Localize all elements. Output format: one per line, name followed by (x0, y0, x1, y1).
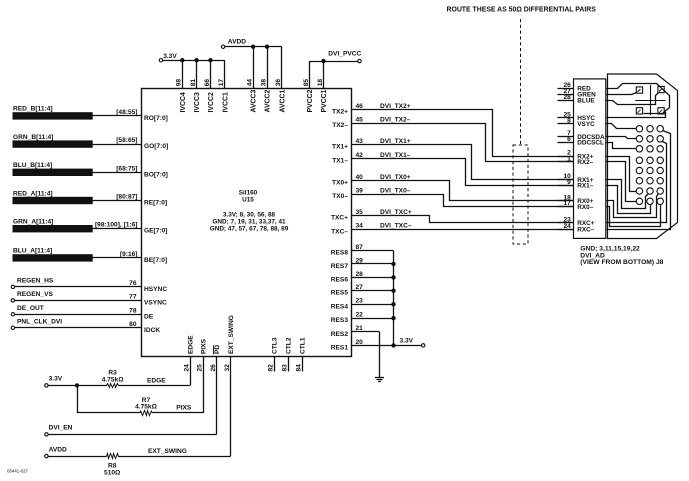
svg-text:34: 34 (356, 223, 364, 230)
wire RX2+ to pad row7 col1 (606, 157, 637, 192)
svg-text:GND; 47, 57, 67, 78, 88, 89: GND; 47, 57, 67, 78, 88, 89 (210, 226, 289, 233)
svg-text:BO[7:0]: BO[7:0] (144, 171, 168, 178)
svg-text:PVCC1: PVCC1 (321, 89, 328, 112)
svg-text:TX0–: TX0– (332, 193, 348, 200)
svg-text:EDGE: EDGE (147, 377, 166, 384)
node REGEN_HS to pin 76 (HSYNC) (11, 278, 167, 293)
svg-text:510Ω: 510Ω (104, 470, 121, 476)
svg-text:45: 45 (356, 116, 364, 123)
svg-text:REGEN_HS: REGEN_HS (17, 278, 54, 285)
wire pin 29 (RES7) (331, 257, 394, 270)
junction on 3.3V feed (75, 384, 78, 387)
pin 27 (GREN) of connector J8 (558, 88, 597, 99)
IC U15 SiI160 DVI transmitter (142, 89, 352, 357)
svg-text:BLUE: BLUE (577, 97, 595, 104)
svg-text:4.75kΩ: 4.75kΩ (135, 404, 158, 411)
power AVDD rail to AVCC pins 44,38,36 (221, 38, 286, 112)
wire RES8..RES3 pull-up bus vertical (392, 251, 395, 347)
wire RX2- to pad row8 col1 (606, 162, 637, 202)
svg-text:3.3V; 8, 30, 56, 88: 3.3V; 8, 30, 56, 88 (223, 212, 276, 219)
dashed leader line (520, 19, 522, 145)
svg-text:U15: U15 (242, 197, 254, 204)
bus BLU_B[11:4] to pin BO[7:0] ([68:75]) (13, 162, 168, 178)
wire pin 87 (RES8) (331, 244, 394, 257)
svg-text:DVI_TX0+: DVI_TX0+ (380, 174, 411, 181)
svg-text:EXT_SWING: EXT_SWING (228, 315, 235, 354)
svg-text:38: 38 (260, 79, 267, 87)
svg-text:REGEN_VS: REGEN_VS (17, 291, 54, 298)
wire RXC- up right side to pad row1 col3 (606, 131, 671, 230)
svg-text:PIXS: PIXS (201, 338, 208, 354)
svg-text:DVI_TXC–: DVI_TXC– (380, 223, 412, 230)
svg-text:DE: DE (144, 313, 154, 320)
resistor R7 4.75k to PIXS pin 25 (135, 397, 203, 416)
pin 24 (EDGE) label (183, 335, 194, 372)
svg-text:23: 23 (356, 298, 364, 305)
connector J8 notes (580, 246, 663, 267)
wire RX1- to pad row8 col2 (606, 186, 651, 214)
node DE_OUT to pin 78 (DE) (11, 305, 154, 320)
svg-text:AVDD: AVDD (228, 38, 246, 45)
svg-text:9: 9 (567, 179, 571, 186)
svg-text:AVDD: AVDD (49, 446, 67, 453)
wire BLUE to pad C2 (606, 93, 659, 105)
svg-text:RO[7:0]: RO[7:0] (144, 115, 168, 122)
svg-text:DVI_TX1+: DVI_TX1+ (380, 138, 411, 145)
wire net DVI_TX0+ from pin 40 (TX0+) to connector (332, 174, 573, 201)
svg-text:PIXS: PIXS (176, 405, 192, 412)
svg-text:RES1: RES1 (331, 344, 349, 351)
pin 82 (CTL3) stub (267, 337, 278, 371)
svg-text:RXC–: RXC– (577, 227, 594, 234)
svg-text:35: 35 (356, 209, 364, 216)
analog ground cross C5 (635, 85, 665, 115)
svg-text:IVCC2: IVCC2 (208, 92, 215, 112)
svg-text:GND; 7, 19, 31, 33,37, 41: GND; 7, 19, 31, 33,37, 41 (212, 219, 286, 226)
wire VSYC to pad row1 (606, 124, 637, 129)
svg-text:CTL2: CTL2 (286, 337, 293, 354)
pin 26 (PD) label (210, 345, 221, 372)
svg-text:EXT_SWING: EXT_SWING (148, 448, 187, 455)
wire net DVI_TXC+ from pin 35 (TXC+) to connector (331, 209, 574, 223)
node PNL_CLK_DVI to pin 80 (IDCK) (11, 319, 160, 334)
svg-text:VSYNC: VSYNC (144, 299, 167, 306)
pin 23 (RXC+) of connector J8 (558, 217, 595, 228)
wire pin 21 (RES2) (331, 325, 380, 338)
svg-text:3.3V: 3.3V (49, 376, 63, 383)
svg-text:[68:75]: [68:75] (116, 165, 137, 172)
svg-text:26: 26 (210, 364, 217, 372)
wire net DVI_TXC- from pin 34 (TXC-) to connector (331, 223, 573, 236)
wire 3.3V feed down to R7 (78, 386, 141, 413)
svg-text:RES4: RES4 (331, 303, 349, 310)
node AVDD terminal bottom-left (45, 446, 67, 458)
pin 7 (DDCSDA) of connector J8 (558, 130, 606, 141)
node 3.3V pull-up terminal on RES1 (400, 338, 425, 347)
svg-text:20: 20 (356, 339, 364, 346)
svg-text:DDCSCL: DDCSCL (577, 140, 604, 147)
svg-text:GO[7:0]: GO[7:0] (144, 143, 168, 150)
wire RX1+ to pad row7 col2 (606, 180, 649, 209)
bus RED_A[11:4] to pin RE[7:0] ([80:87]) (13, 190, 167, 206)
dashed region box over differential pairs (513, 145, 528, 244)
pin 8 (VSYC) of connector J8 (558, 117, 596, 128)
pin 10 (RX1+) of connector J8 (558, 173, 594, 184)
svg-text:1: 1 (567, 156, 571, 163)
svg-text:RES3: RES3 (331, 317, 349, 324)
svg-text:8: 8 (567, 117, 571, 124)
svg-text:[48:55]: [48:55] (116, 109, 137, 116)
svg-text:RE[7:0]: RE[7:0] (144, 200, 167, 207)
wire RED around analog section to pad C3 (606, 84, 670, 114)
pin 26 (RED) of connector J8 (558, 82, 592, 93)
wire RES2 to ground (379, 332, 381, 378)
svg-text:TXC–: TXC– (331, 228, 348, 235)
svg-text:TX2–: TX2– (332, 122, 348, 129)
svg-text:DVI_PVCC: DVI_PVCC (328, 51, 361, 58)
svg-text:42: 42 (356, 152, 364, 159)
svg-text:83: 83 (282, 364, 289, 372)
svg-text:85: 85 (303, 79, 310, 87)
analog pad C4 (658, 108, 664, 114)
pin 28 (BLUE) of connector J8 (558, 94, 596, 105)
svg-text:RES6: RES6 (331, 277, 349, 284)
svg-text:IVCC3: IVCC3 (194, 92, 201, 112)
connector J8 pin label box (574, 79, 606, 239)
wire RX0+ to pad row7 col3 (606, 194, 659, 218)
svg-text:66: 66 (204, 79, 211, 87)
svg-text:[80:87]: [80:87] (116, 194, 137, 201)
svg-text:05441-027: 05441-027 (7, 468, 29, 473)
wire EXT_SWING up to pin 32 (230, 357, 232, 456)
pin 2 (RX2+) of connector J8 (558, 150, 594, 161)
pin 24 (RXC-) of connector J8 (558, 223, 595, 234)
svg-text:43: 43 (356, 138, 364, 145)
pin 25 (HSYC) of connector J8 (558, 111, 596, 122)
svg-text:39: 39 (356, 187, 364, 194)
svg-text:44: 44 (246, 79, 253, 87)
svg-text:RES8: RES8 (331, 250, 349, 257)
svg-text:RES5: RES5 (331, 290, 349, 297)
svg-text:HSYNC: HSYNC (144, 286, 167, 293)
svg-text:3.3V: 3.3V (400, 338, 414, 345)
svg-text:DVI_TXC+: DVI_TXC+ (380, 209, 412, 216)
svg-text:IDCK: IDCK (144, 327, 160, 334)
svg-text:TX1–: TX1– (332, 158, 348, 165)
bus GRN_B[11:4] to pin GO[7:0] ([58:65]) (13, 134, 168, 150)
pin 1 (RX2-) of connector J8 (558, 156, 594, 167)
svg-text:DVI_TX1–: DVI_TX1– (380, 152, 411, 159)
svg-text:24: 24 (183, 364, 190, 372)
wire pin 20 (RES1) (331, 339, 422, 352)
wire net DVI_TX0- from pin 39 (TX0-) to connector (332, 187, 573, 206)
svg-text:DVI_EN: DVI_EN (49, 425, 73, 432)
pin 32 (EXT_SWING) label (224, 315, 235, 371)
svg-text:TX2+: TX2+ (332, 109, 348, 116)
svg-text:77: 77 (129, 294, 137, 301)
wire EDGE up to pin 24 (190, 357, 192, 385)
svg-text:R8: R8 (108, 463, 117, 470)
wire HSYC to pad C4 (606, 113, 666, 118)
wire pin 27 (RES5) (331, 284, 394, 297)
node DVI_EN to PD pin 26 (45, 357, 217, 436)
svg-text:RES7: RES7 (331, 263, 349, 270)
bus RED_B[11:4] to pin RO[7:0] ([48:55]) (13, 106, 168, 122)
svg-text:IVCC4: IVCC4 (180, 92, 187, 112)
svg-text:SiI160: SiI160 (239, 190, 258, 197)
svg-text:TX0+: TX0+ (332, 180, 348, 187)
svg-text:36: 36 (275, 79, 282, 87)
svg-text:(VIEW FROM BOTTOM) J8: (VIEW FROM BOTTOM) J8 (580, 259, 663, 266)
svg-text:98: 98 (176, 79, 183, 87)
wire DDCSDA to pad row2 (606, 137, 637, 139)
wire net DVI_TX1- from pin 42 (TX1-) to connector (332, 152, 573, 186)
svg-text:TXC+: TXC+ (331, 215, 348, 222)
svg-text:AVCC3: AVCC3 (251, 89, 258, 112)
svg-text:BLU_A[11:4]: BLU_A[11:4] (13, 248, 52, 255)
pin 17 (RX0-) of connector J8 (558, 200, 594, 211)
svg-text:6: 6 (567, 136, 571, 143)
svg-text:PD: PD (214, 345, 221, 354)
svg-text:RES2: RES2 (331, 331, 349, 338)
svg-text:PNL_CLK_DVI: PNL_CLK_DVI (17, 319, 62, 326)
svg-text:CTL3: CTL3 (271, 337, 278, 354)
svg-text:RX0–: RX0– (577, 204, 593, 211)
wire pin 22 (RES3) (331, 312, 394, 325)
svg-text:RX2–: RX2– (577, 159, 593, 166)
connector J8 pad grid 3x8 (636, 126, 663, 205)
svg-text:TX1+: TX1+ (332, 144, 348, 151)
svg-text:78: 78 (129, 308, 137, 315)
wire RXC+ up right side to pad row2 col3 (606, 142, 667, 223)
svg-text:GRN_B[11:4]: GRN_B[11:4] (13, 134, 53, 141)
pin 18 (RX0+) of connector J8 (558, 194, 594, 205)
wire pin 28 (RES6) (331, 271, 394, 284)
pin 83 (CTL2) stub (282, 337, 293, 371)
wire DDCSCL to pad row3 (606, 143, 637, 149)
svg-text:PVCC2: PVCC2 (307, 89, 314, 112)
svg-text:40: 40 (356, 174, 364, 181)
svg-text:DE_OUT: DE_OUT (17, 305, 44, 312)
svg-text:GRN_A[11:4]: GRN_A[11:4] (13, 219, 53, 226)
svg-text:DVI_TX2–: DVI_TX2– (380, 116, 411, 123)
pin 9 (RX1-) of connector J8 (558, 179, 594, 190)
svg-text:CTL1: CTL1 (300, 337, 307, 354)
svg-text:18: 18 (317, 79, 324, 87)
svg-text:GE[7:0]: GE[7:0] (144, 228, 167, 235)
wire net DVI_TX2- from pin 45 (TX2-) to connector (332, 116, 573, 161)
pin 25 (PIXS) label (197, 338, 208, 371)
power DVI_PVCC rail to PVCC pins 85,18 (303, 51, 362, 113)
analog pad C3 (636, 108, 642, 114)
svg-text:82: 82 (267, 364, 274, 372)
svg-text:DVI_TX0–: DVI_TX0– (380, 187, 411, 194)
wire pin 23 (RES4) (331, 298, 394, 311)
node 3.3V terminal bottom-left (45, 376, 63, 387)
svg-text:17: 17 (218, 79, 225, 87)
svg-text:AVCC2: AVCC2 (265, 89, 272, 112)
resistor R8 510 to EXT_SWING pin 32 (48, 448, 230, 477)
svg-text:[9:16]: [9:16] (120, 251, 138, 258)
svg-text:BLU_B[11:4]: BLU_B[11:4] (13, 162, 52, 169)
svg-text:VSYC: VSYC (577, 121, 595, 128)
svg-text:32: 32 (224, 364, 231, 372)
resistor R3 4.75k to EDGE pin 24 (48, 370, 190, 388)
svg-text:24: 24 (563, 223, 571, 230)
svg-text:[58:65]: [58:65] (116, 137, 137, 144)
power 3.3V rail to IVCC pins 98,81,66,17 (159, 53, 229, 113)
svg-text:RED_A[11:4]: RED_A[11:4] (13, 190, 53, 197)
wire GREN to pad C1 (606, 93, 637, 95)
svg-text:81: 81 (190, 79, 197, 87)
svg-text:80: 80 (129, 321, 137, 328)
svg-text:RED_B[11:4]: RED_B[11:4] (13, 106, 53, 113)
svg-text:[98:100], [1:6]: [98:100], [1:6] (95, 222, 138, 229)
svg-text:AVCC1: AVCC1 (279, 89, 286, 112)
svg-text:17: 17 (563, 200, 571, 207)
svg-text:3.3V: 3.3V (163, 53, 177, 60)
wire net DVI_TX1+ from pin 43 (TX1+) to connector (332, 138, 573, 180)
svg-text:BE[7:0]: BE[7:0] (144, 257, 167, 264)
svg-text:84: 84 (296, 364, 303, 372)
svg-text:76: 76 (129, 280, 137, 287)
connector J8 shell outline (view from bottom) (608, 74, 678, 239)
svg-text:EDGE: EDGE (187, 335, 194, 354)
node REGEN_VS to pin 77 (VSYNC) (11, 291, 167, 306)
pin 6 (DDCSCL) of connector J8 (558, 136, 605, 147)
wire net DVI_TX2+ from pin 46 (TX2+) to connector (332, 103, 573, 157)
pin 84 (CTL1) stub (296, 337, 307, 371)
svg-text:ROUTE THESE AS 50Ω DIFFERENTIA: ROUTE THESE AS 50Ω DIFFERENTIAL PAIRS (447, 7, 597, 14)
svg-text:4.75kΩ: 4.75kΩ (102, 376, 125, 383)
svg-text:IVCC1: IVCC1 (222, 92, 229, 112)
svg-text:25: 25 (197, 364, 204, 372)
wire RX0- to pad row8 col3 (606, 205, 661, 227)
svg-text:28: 28 (563, 94, 571, 101)
bus GRN_A[11:4] to pin GE[7:0] ([98:100], [1:6]) (13, 219, 167, 235)
svg-text:RX1–: RX1– (577, 183, 593, 190)
analog pad C2 (658, 86, 664, 92)
svg-text:22: 22 (356, 312, 364, 319)
analog pad C1 (636, 87, 642, 93)
ground symbol below RES2 (375, 378, 384, 382)
wire PIXS up to pin 25 (203, 357, 205, 413)
bus BLU_A[11:4] to pin BE[7:0] ([9:16]) (13, 248, 167, 264)
